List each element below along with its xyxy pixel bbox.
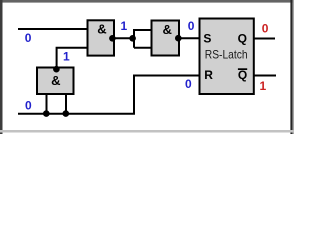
- svg-text:S: S: [203, 32, 211, 46]
- wire: latch Q-bar output: [254, 75, 276, 77]
- svg-text:&: &: [97, 22, 106, 37]
- node: U2 output dot: [175, 35, 182, 42]
- wire: junction branch to U2 both inputs: [134, 30, 152, 48]
- wire: U3 input stub right: [65, 94, 67, 114]
- frame border right: [290, 0, 292, 134]
- svg-text:1: 1: [121, 19, 128, 33]
- frame border top: [0, 0, 294, 3]
- node: junction dot bottom left: [43, 110, 50, 117]
- svg-text:0: 0: [262, 22, 269, 36]
- frame border right outer: [293, 0, 294, 134]
- svg-text:0: 0: [25, 99, 32, 113]
- svg-text:R: R: [204, 68, 213, 82]
- node: U1 output dot: [109, 35, 116, 42]
- svg-text:0: 0: [25, 31, 32, 45]
- AND gate U2: [152, 21, 180, 56]
- wire: input S0 to U1 top input: [18, 28, 88, 30]
- svg-text:0: 0: [185, 77, 192, 91]
- wire: U1 output to junction: [114, 37, 134, 39]
- svg-text:0: 0: [188, 19, 195, 33]
- node: junction dot: [129, 35, 136, 42]
- frame border left: [0, 0, 3, 134]
- AND gate U3 (rotated, output on top): [37, 68, 74, 95]
- wire: U3 output up to U1 lower input: [57, 48, 88, 69]
- svg-text:1: 1: [260, 79, 267, 93]
- AND gate U1: [88, 20, 115, 55]
- svg-text:&: &: [163, 22, 172, 37]
- node: U3 output dot: [53, 66, 60, 73]
- svg-text:Q: Q: [238, 32, 247, 46]
- wire: latch Q output: [254, 38, 275, 40]
- node: junction dot bottom right: [63, 110, 70, 117]
- wire: U2 output to latch S input: [179, 37, 200, 39]
- svg-text:&: &: [51, 73, 60, 88]
- frame border bottom: [0, 130, 294, 133]
- wire: U3 input stub left: [46, 94, 48, 114]
- wire: input S1 along bottom to latch R input: [18, 76, 200, 114]
- svg-text:RS-Latch: RS-Latch: [205, 47, 248, 61]
- RS-Latch U4: [200, 19, 254, 95]
- svg-text:1: 1: [63, 49, 70, 63]
- overline of Q-bar: [238, 68, 247, 70]
